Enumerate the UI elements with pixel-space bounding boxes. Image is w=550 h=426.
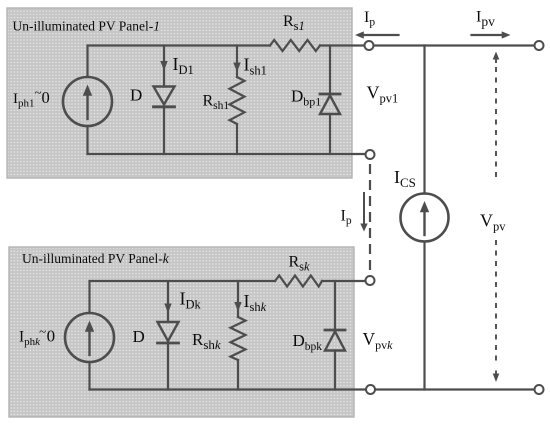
svg-text:D: D	[133, 327, 145, 346]
arrow shaft: Ipv top (rightward)	[472, 34, 503, 36]
wire: ICS branch to bottom rail	[423, 242, 425, 390]
wire: panel1 left drop below source	[86, 126, 88, 154]
wire: Rshk branch bottom	[237, 360, 239, 390]
diode Dk triangle	[158, 322, 179, 341]
wire: diode Dk branch bottom	[167, 343, 169, 390]
svg-text:Un-illuminated PV Panel-1: Un-illuminated PV Panel-1	[13, 19, 161, 34]
terminal: panel1 top output	[365, 41, 374, 50]
svg-text:Vpv1: Vpv1	[367, 83, 399, 106]
arrowhead: Ip top	[355, 31, 364, 38]
wire: bottom rail from terminal to right terminal	[375, 388, 535, 390]
panel box k (Un-illuminated PV Panel-k shaded region)	[9, 247, 354, 417]
resistor Rs1 zigzag	[270, 40, 320, 51]
wire: bypass diode Dbpk branch top	[334, 281, 336, 330]
resistor Rsh1 zigzag	[230, 77, 245, 124]
wire: panel k top rail left	[90, 281, 276, 313]
wire: diode D1 branch top	[163, 46, 165, 87]
wire: panel1 top rail to terminal	[320, 44, 365, 46]
wire: bypass diode Dbp1 branch top	[329, 46, 331, 95]
wire: bypass diode Dbpk branch bottom	[334, 351, 336, 390]
arrowhead: Iphk source arrow	[85, 321, 94, 332]
arrow shaft: Iph1 source arrow	[86, 95, 88, 119]
diode Dk cathode bar	[158, 342, 179, 345]
current source ICS circle	[401, 194, 449, 242]
svg-text:Ipv: Ipv	[476, 9, 495, 30]
svg-text:Vpvk: Vpvk	[363, 329, 394, 352]
svg-text:Un-illuminated PV Panel-k: Un-illuminated PV Panel-k	[22, 251, 170, 266]
wire: ICS branch from top rail	[423, 46, 425, 194]
arrow shaft: Ip top (leftward)	[363, 34, 399, 36]
arrowhead: Ish1 wire arrow	[233, 63, 240, 73]
svg-text:D: D	[130, 86, 142, 105]
wire: panel k left drop below source	[88, 362, 90, 390]
arrowhead: Ipv top	[502, 31, 511, 38]
svg-text:Ip: Ip	[364, 9, 375, 29]
diode Dbp1 triangle	[320, 96, 340, 115]
wire: Rshk branch top	[237, 281, 239, 317]
wire: panel k top rail to terminal	[322, 280, 365, 282]
wire: Vpv top arrow stub	[495, 59, 497, 64]
terminal: panel1 bottom output	[366, 150, 375, 159]
diode D1 triangle	[154, 87, 175, 105]
current source Iphk circle	[65, 313, 114, 362]
panel box 1 (Un-illuminated PV Panel-1 shaded region)	[7, 8, 352, 178]
arrow shaft: ICS source arrow	[423, 211, 425, 235]
diode Dbpk cathode bar	[325, 329, 345, 332]
wire: panel1 bottom rail	[88, 153, 367, 155]
dashed connector between panels	[369, 164, 371, 276]
diode Dbpk triangle	[325, 332, 345, 351]
arrow shaft: Iphk source arrow	[88, 331, 90, 355]
arrowhead: ICS source arrow	[420, 201, 429, 212]
diode D1 cathode bar	[154, 105, 175, 108]
diode Dbp1 cathode bar	[320, 93, 340, 96]
terminal: top right	[535, 41, 544, 50]
dashed Vpv line upper	[495, 67, 497, 179]
arrowhead: Vpv bottom (down)	[493, 374, 500, 383]
wire: panel1 top rail left	[88, 46, 271, 78]
arrowhead: Iph1 source arrow	[83, 85, 92, 96]
arrowhead: IDk wire arrow	[164, 304, 171, 314]
terminal: panel k top input	[366, 276, 375, 285]
resistor Rsk zigzag	[275, 276, 322, 287]
svg-text:Ip: Ip	[341, 208, 352, 228]
dashed Vpv line lower	[495, 240, 497, 366]
arrowhead: Vpv top (up)	[493, 52, 500, 60]
arrowhead: Ip middle	[360, 224, 367, 232]
arrowhead: ID1 wire arrow	[160, 61, 167, 71]
arrowhead: Ishk wire arrow	[234, 302, 241, 312]
wire: Vpv bottom arrow stub	[495, 371, 497, 375]
svg-text:ICS: ICS	[394, 167, 416, 190]
svg-text:Vpv: Vpv	[480, 211, 506, 234]
wire: Rsh1 branch bottom	[236, 124, 238, 154]
wire: bypass diode Dbp1 branch bottom	[329, 114, 331, 154]
wire: Rsh1 branch top	[236, 46, 238, 78]
terminal: bottom right	[535, 385, 544, 394]
wire: top rail from terminal to right terminal	[374, 44, 536, 46]
resistor Rshk zigzag	[231, 317, 246, 360]
wire: diode D1 branch bottom	[163, 107, 165, 154]
wire: diode Dk branch top	[167, 281, 169, 322]
arrow shaft: Ip middle (downward)	[363, 193, 365, 225]
terminal: panel k bottom output	[366, 385, 375, 394]
current source Iph1 circle	[63, 77, 112, 126]
wire: panel k bottom rail	[90, 388, 367, 390]
